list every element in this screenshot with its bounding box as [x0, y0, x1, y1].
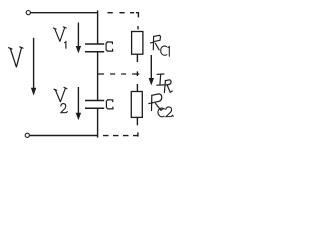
arrow V (left, downward) [31, 38, 36, 96]
label V1 [53, 27, 66, 49]
capacitor C (upper) plates [85, 43, 104, 45]
label V2 [54, 87, 67, 112]
label RC1 [150, 35, 160, 50]
label V [9, 47, 23, 67]
arrow V1 (downward) [76, 23, 81, 54]
wire dashed top rail [108, 12, 113, 14]
wire top rail solid [31, 12, 98, 14]
resistor RC1 body [132, 32, 143, 55]
wire dash between RC2 and bottom rail [137, 132, 139, 136]
wire bottom rail solid [30, 135, 98, 137]
wire RC2 top lead [136, 84, 138, 92]
wire RC2 bottom lead [136, 117, 138, 125]
arrow IR (downward) [149, 55, 154, 85]
wire dashed drop to RC1 [137, 26, 139, 29]
wire RC1 bottom lead [136, 54, 138, 62]
label C (upper capacitor) [106, 42, 113, 51]
resistor RC2 body [131, 92, 142, 118]
terminal circle bottom-left [25, 133, 29, 137]
terminal circle top-left [26, 11, 30, 15]
label RC2 [149, 94, 163, 111]
wire capacitor chain middle segment [97, 52, 99, 101]
capacitor C (lower) plates [85, 100, 104, 102]
wire dashed bottom rail [103, 135, 139, 137]
wire capacitor chain lower segment [97, 108, 99, 137]
wire dash between RC1 and middle rail [136, 71, 138, 76]
label C (lower capacitor) [106, 100, 113, 109]
arrow V2 (downward) [76, 87, 81, 120]
label IR [157, 74, 172, 92]
wire capacitor chain upper segment [97, 10, 99, 44]
wire dashed middle rail [98, 73, 140, 75]
